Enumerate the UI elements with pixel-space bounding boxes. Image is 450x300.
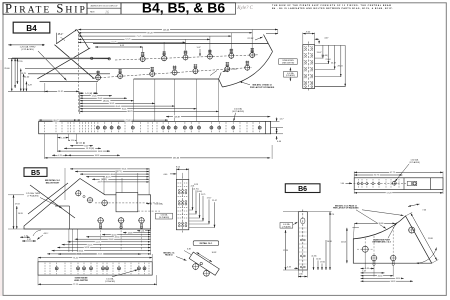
svg-text:17.92: 17.92 — [15, 204, 21, 206]
svg-text:DETAIL 16-1: DETAIL 16-1 — [200, 242, 213, 245]
svg-text:1.33: 1.33 — [61, 137, 65, 139]
B4 left vertical dimension stack — [11, 58, 13, 91]
B4 end view right dimension stack — [315, 44, 346, 46]
B5 three bottom holes with stems — [98, 218, 103, 223]
svg-text:91.75: 91.75 — [88, 244, 93, 246]
B4 hole row A (upper, sloped) with bolt stems — [115, 55, 258, 60]
B5 plate internal lines — [55, 205, 70, 207]
svg-text:B4 - B6 IS LAMINATED AND BOLTE: B4 - B6 IS LAMINATED AND BOLTED BETWEEN … — [272, 7, 393, 10]
svg-text:(7 PLACES): (7 PLACES) — [28, 194, 39, 197]
svg-text:6.38: 6.38 — [187, 248, 191, 250]
B4 4.00 DIA note box — [284, 72, 298, 78]
svg-text:128.87: 128.87 — [174, 116, 181, 118]
svg-text:SEE ARC 1 PAGE 13: SEE ARC 1 PAGE 13 — [252, 84, 272, 87]
B4 under-beam dim 34.33 — [68, 154, 120, 156]
B6 dims right of strip — [329, 212, 331, 270]
svg-text:(4.33): (4.33) — [312, 256, 317, 258]
B6 angle arc — [416, 248, 437, 264]
svg-text:21.44: 21.44 — [325, 59, 331, 61]
B4 dim extension verticals — [44, 83, 46, 92]
B5 strip top dims — [58, 253, 141, 255]
B4 beam overall length dims 26.77 / 77.22 / 128.87 — [39, 119, 77, 121]
svg-text:(4.75): (4.75) — [194, 188, 199, 190]
svg-text:11.75: 11.75 — [201, 194, 206, 196]
B6 top strip outline — [354, 178, 443, 190]
svg-text:41.41: 41.41 — [98, 254, 103, 256]
svg-text:34.33: 34.33 — [95, 155, 100, 157]
svg-text:(16.44): (16.44) — [321, 55, 328, 57]
svg-text:77.22: 77.22 — [73, 284, 78, 286]
svg-text:16.98: 16.98 — [327, 241, 332, 243]
B5 top dimension stack — [70, 168, 149, 170]
svg-text:44.1°: 44.1° — [44, 233, 49, 235]
svg-text:26.77: 26.77 — [53, 120, 59, 122]
B4 beam right side dims 1.17 / 4.40 — [271, 120, 280, 122]
B5 center hole 8.00 DIA — [102, 200, 108, 206]
B4 small dim 4.05 — [95, 46, 143, 48]
svg-text:1.50: 1.50 — [71, 140, 75, 142]
B5 side strip dims — [176, 168, 188, 170]
title block: sheet title B4, B5, & B6 — [121, 3, 236, 14]
svg-text:45.1°: 45.1° — [58, 33, 64, 36]
B4 top dimension stack above top view — [78, 29, 277, 31]
B4 end view (laminated stack) — [303, 45, 315, 89]
svg-text:14.00: 14.00 — [24, 76, 30, 78]
svg-text:(36.41): (36.41) — [103, 100, 109, 102]
svg-text:73.41: 73.41 — [73, 257, 78, 259]
B4 small end circles on top edge — [91, 57, 93, 59]
svg-text:LINES OMITTED: LINES OMITTED — [282, 63, 295, 65]
B4 hole row B (lower, sloped) with bolt stems — [92, 67, 252, 78]
svg-text:SOME HIDDEN: SOME HIDDEN — [282, 60, 294, 62]
svg-text:235.66: 235.66 — [173, 158, 180, 160]
svg-text:(5 PLACES): (5 PLACES) — [409, 161, 420, 164]
svg-text:17.55: 17.55 — [17, 61, 23, 63]
B4 small reference line top-left — [8, 44, 45, 46]
B6 left dims — [285, 230, 287, 270]
B5 bottom dimension stack — [137, 230, 151, 232]
svg-text:65.41: 65.41 — [116, 106, 121, 108]
B6 plate hole centerlines — [373, 236, 375, 255]
svg-text:7.46: 7.46 — [422, 210, 426, 212]
svg-text:29.60: 29.60 — [4, 68, 10, 70]
svg-text:13.18: 13.18 — [128, 232, 133, 234]
svg-text:47.72: 47.72 — [390, 172, 395, 174]
svg-text:8.23: 8.23 — [194, 184, 198, 186]
scan artifact: faint pink left edge — [0, 60, 1, 296]
svg-text:BELOW RIGHT: BELOW RIGHT — [46, 182, 60, 184]
svg-text:17.45: 17.45 — [92, 95, 97, 97]
svg-text:5.51: 5.51 — [141, 230, 145, 232]
B6 side strip (left) — [298, 212, 307, 270]
B6 section label — [285, 184, 320, 193]
svg-text:88.79: 88.79 — [128, 111, 133, 113]
B6 4.00 DIA note box — [280, 223, 293, 229]
svg-text:B6: B6 — [298, 186, 307, 193]
svg-text:26.30: 26.30 — [378, 275, 383, 277]
B4 top view bow arc (SEE ARC 1) — [222, 52, 272, 87]
svg-text:(10 PLACES): (10 PLACES) — [232, 110, 244, 113]
svg-text:20.80: 20.80 — [379, 223, 384, 225]
svg-text:(X PLACES): (X PLACES) — [21, 48, 33, 51]
svg-text:4.76: 4.76 — [58, 155, 62, 157]
svg-text:10.82: 10.82 — [212, 252, 217, 254]
B6 plate holes — [409, 227, 415, 233]
B4 dimension 13.41 — [79, 92, 97, 94]
svg-text:Kyle? C: Kyle? C — [236, 6, 253, 11]
B4 top view bow tip line 22.39deg — [264, 35, 273, 52]
B4 end view top dim 8.00 — [303, 33, 315, 35]
B5 top-left crossed holes — [76, 191, 81, 196]
svg-text:57.71: 57.71 — [125, 39, 131, 41]
B4 total length dimension 235.66 — [45, 157, 271, 159]
svg-text:63.43: 63.43 — [109, 239, 114, 241]
svg-text:22.74: 22.74 — [330, 214, 335, 216]
B4 section label — [13, 22, 50, 33]
svg-text:(47.5): (47.5) — [116, 171, 121, 173]
B5 left dims — [13, 195, 15, 229]
svg-text:14.66: 14.66 — [316, 259, 321, 261]
B4 top view bottom edge with chamfer — [134, 78, 219, 80]
DETAIL 16-1 label box — [193, 241, 219, 246]
B5 side strip (right) — [176, 179, 188, 229]
detail 16-1 rotated bar — [189, 252, 219, 275]
svg-text:21.88: 21.88 — [428, 238, 433, 240]
svg-text:89.28: 89.28 — [147, 33, 153, 35]
svg-text:(16 PLACES): (16 PLACES) — [159, 216, 170, 219]
svg-text:(5 PLACES): (5 PLACES) — [105, 280, 115, 283]
svg-text:0.60: 0.60 — [299, 274, 303, 276]
svg-text:FOR LAYOUT OF RADIUS: FOR LAYOUT OF RADIUS — [250, 86, 275, 89]
svg-text:LINES OMITTED: LINES OMITTED — [74, 280, 89, 282]
B4 SOME HIDDEN LINES OMITTED box — [279, 59, 298, 65]
title block: PIRATE SHIP logo box — [3, 3, 87, 14]
svg-text:17.28: 17.28 — [283, 250, 288, 252]
svg-text:8.00 DIA.: 8.00 DIA. — [155, 203, 164, 206]
svg-text:23.79: 23.79 — [98, 182, 103, 184]
B5 0.50 DIA box note — [156, 213, 173, 219]
svg-text:1.64: 1.64 — [341, 183, 345, 185]
svg-text:BETWEEN ARC 3 & 4: BETWEEN ARC 3 & 4 — [373, 241, 391, 244]
B4 top-view: beam top edge (gray) — [12, 57, 110, 59]
svg-text:13.47: 13.47 — [316, 52, 322, 54]
B4 bottom dimension 11.37 — [45, 90, 79, 92]
B5 section label — [24, 168, 47, 177]
svg-text:83.41: 83.41 — [79, 250, 84, 252]
B5 strip bottom dim 77.22 — [38, 283, 157, 285]
B6 strip dims — [354, 171, 443, 173]
svg-text:58.23: 58.23 — [391, 281, 396, 283]
svg-text:B4: B4 — [26, 24, 37, 33]
svg-text:16: 16 — [105, 9, 109, 14]
svg-text:71.71: 71.71 — [136, 36, 142, 38]
svg-text:4.33: 4.33 — [287, 267, 291, 269]
svg-text:B5: B5 — [31, 170, 40, 177]
title block: info box with page number — [87, 3, 121, 14]
svg-text:(9.44): (9.44) — [197, 191, 202, 193]
B6 plate top dim 20.80 — [354, 222, 395, 224]
svg-text:PIRATE SHIP: PIRATE SHIP — [5, 1, 87, 15]
B6 strip crossed hole with leader — [392, 181, 396, 185]
B6 bottom dims — [361, 268, 375, 270]
B4 top-view: X cross brace diagonals — [37, 48, 90, 79]
svg-text:13.78 (M): 13.78 (M) — [86, 148, 94, 150]
svg-text:51.75: 51.75 — [96, 242, 101, 244]
B6 strip centerline + small holes — [350, 183, 406, 185]
svg-text:43.16: 43.16 — [396, 278, 401, 280]
svg-text:76.41: 76.41 — [122, 108, 127, 110]
detail 16-1 holes — [193, 264, 199, 270]
svg-text:77.22: 77.22 — [125, 120, 131, 122]
B4 extension lines from row A holes up to dims — [142, 47, 144, 53]
B4 end view dim 4.47 — [315, 38, 320, 40]
B4 top-view: hole row lines — [25, 68, 150, 70]
B4 top view outline: top edge — [93, 43, 268, 45]
B6 strip right blocks — [407, 181, 411, 185]
svg-text:25.17: 25.17 — [331, 62, 337, 64]
B5 X cross brace — [30, 185, 75, 218]
svg-text:0.41: 0.41 — [79, 143, 83, 145]
svg-text:103.43: 103.43 — [163, 29, 170, 31]
svg-text:23.25°: 23.25° — [231, 69, 237, 71]
svg-text:94.26: 94.26 — [85, 247, 90, 249]
B6 plate vertical dim 20.64 — [346, 228, 348, 263]
B4 extension lines below bottom edge down to side view beam — [133, 79, 135, 121]
svg-text:21.47: 21.47 — [212, 200, 217, 202]
svg-text:43.50: 43.50 — [115, 237, 120, 239]
B4 side view beam outline — [39, 121, 271, 133]
svg-text:57.29: 57.29 — [387, 193, 392, 195]
svg-text:19.66: 19.66 — [320, 262, 325, 264]
B5 main plate outline — [24, 179, 151, 230]
B4 under-beam small dimension cluster — [58, 137, 69, 139]
svg-text:68.46: 68.46 — [111, 174, 116, 176]
svg-text:18.33: 18.33 — [98, 151, 103, 153]
B6 main plate outline — [353, 216, 431, 263]
svg-text:30.75: 30.75 — [374, 175, 379, 177]
B4 top-view: apex peak lines with 45.1 deg angle — [56, 30, 77, 44]
B5 bottom strip side view — [38, 262, 152, 275]
svg-text:6.18: 6.18 — [362, 271, 366, 273]
svg-text:3.63: 3.63 — [84, 145, 88, 147]
svg-text:B4, B5, & B6: B4, B5, & B6 — [142, 0, 225, 16]
svg-text:50.41: 50.41 — [110, 103, 115, 105]
B5 tab block on plate — [116, 193, 138, 212]
B4 side view beam hole circles and centerlines — [44, 122, 46, 133]
svg-text:28.24: 28.24 — [337, 65, 343, 67]
B4 centerline vertical dashed — [77, 34, 79, 113]
svg-text:14.26: 14.26 — [18, 213, 24, 215]
B4 ordinate dimension stack between views — [80, 92, 98, 94]
svg-text:17.17: 17.17 — [207, 197, 212, 199]
svg-text:PAGE 53: PAGE 53 — [165, 254, 172, 257]
svg-text:22.39°: 22.39° — [247, 38, 253, 40]
svg-text:THE BOW OF THE PIRATE SHIP CON: THE BOW OF THE PIRATE SHIP CONSISTS OF 1… — [272, 4, 391, 7]
svg-text:20.64: 20.64 — [341, 241, 346, 243]
B5 bottom hole centerlines to dims — [100, 224, 102, 252]
svg-text:PER LAYOUT OF RADIUSES: PER LAYOUT OF RADIUSES — [333, 207, 359, 210]
